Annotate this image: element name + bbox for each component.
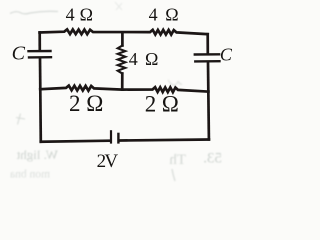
- svg-text:Th: Th: [169, 152, 186, 168]
- svg-text:mon bna: mon bna: [10, 169, 50, 181]
- svg-text:4 Ω: 4 Ω: [149, 5, 179, 25]
- svg-text:4 Ω: 4 Ω: [129, 49, 159, 69]
- svg-text:53.: 53.: [203, 151, 222, 167]
- svg-text:2 Ω: 2 Ω: [69, 91, 103, 116]
- svg-text:4 Ω: 4 Ω: [66, 4, 93, 24]
- svg-text:C: C: [12, 42, 26, 64]
- svg-text:C: C: [220, 45, 233, 65]
- svg-text:2V: 2V: [97, 151, 119, 172]
- svg-text:W. light: W. light: [16, 147, 58, 162]
- svg-text:2 Ω: 2 Ω: [145, 91, 179, 116]
